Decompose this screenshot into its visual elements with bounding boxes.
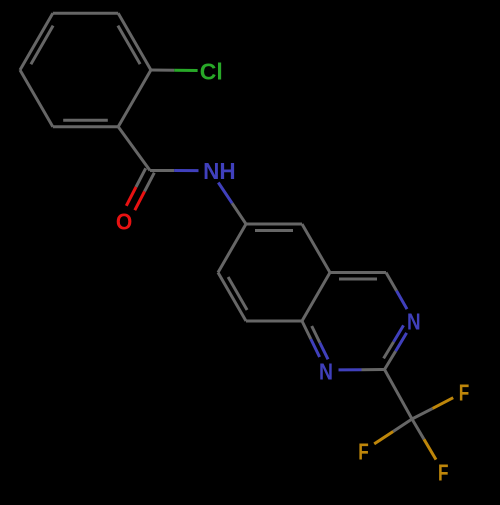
svg-text:Cl: Cl <box>200 58 223 84</box>
svg-text:F: F <box>358 438 369 464</box>
svg-text:N: N <box>407 308 421 334</box>
svg-text:N: N <box>319 359 333 385</box>
svg-text:NH: NH <box>203 158 236 184</box>
svg-text:F: F <box>438 460 449 486</box>
svg-text:F: F <box>459 380 470 406</box>
svg-text:O: O <box>116 208 132 234</box>
